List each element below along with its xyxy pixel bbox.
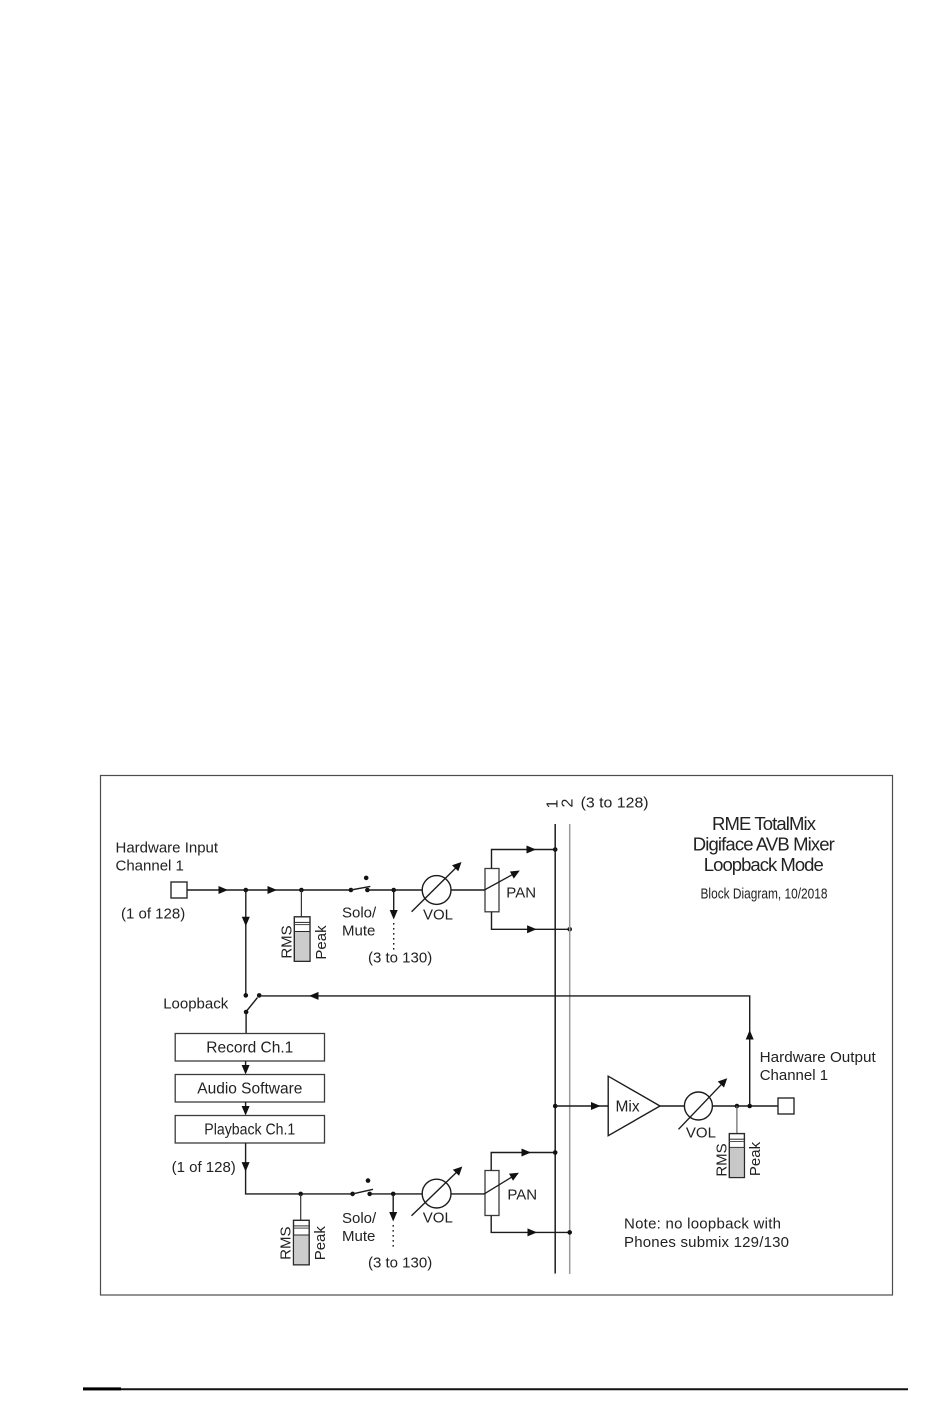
wire PAN1 top to bus1	[492, 850, 556, 869]
arrow loopback feedback up	[746, 1030, 754, 1040]
label PAN 2	[507, 1187, 537, 1204]
meter M3 RMS/Peak	[729, 1134, 744, 1178]
wire solo branch 2 down	[392, 1194, 394, 1212]
bus line 2	[569, 824, 571, 1274]
subtitle Block Diagram	[701, 885, 828, 902]
output terminal square	[778, 1098, 794, 1114]
switch S2 solo/mute contacts	[350, 1178, 372, 1196]
label bus 2	[559, 799, 576, 808]
wire audio to playback	[245, 1102, 247, 1107]
arrow bus1 to mix	[591, 1102, 601, 1110]
svg-text:Digiface AVB Mixer: Digiface AVB Mixer	[693, 834, 835, 855]
amp Mix	[608, 1076, 660, 1136]
pan pot P2 wiper arrow	[484, 1173, 519, 1194]
svg-text:Record Ch.1: Record Ch.1	[206, 1040, 293, 1057]
svg-text:Channel 1: Channel 1	[760, 1067, 828, 1084]
label PAN 1	[506, 885, 536, 902]
arrow PAN1 top	[527, 846, 537, 854]
switch S1 solo/mute contacts	[349, 876, 370, 893]
arrow solo branch 2	[389, 1212, 397, 1222]
wire loopback feedback top	[259, 996, 750, 1106]
svg-text:Mute: Mute	[342, 922, 375, 939]
switch loopback contacts	[244, 993, 262, 1014]
footer rule	[83, 1388, 908, 1390]
arrow loopback feedback left	[309, 992, 319, 1000]
label (3 to 130) 1	[368, 950, 432, 967]
wire solo branch 1 down	[393, 890, 395, 910]
arrow input 1	[219, 886, 229, 894]
node input branch junction	[244, 888, 249, 893]
svg-text:(3 to 130): (3 to 130)	[368, 1255, 432, 1272]
node bus2 pan2	[567, 1230, 572, 1235]
label Solo/Mute 2	[342, 1210, 377, 1245]
svg-text:Hardware Input: Hardware Input	[116, 840, 219, 857]
label Peak meter2	[312, 1226, 329, 1261]
pan pot P1	[485, 869, 499, 912]
arrow PAN1 bottom	[527, 925, 537, 933]
svg-text:Mix: Mix	[616, 1099, 640, 1116]
meter1 stub wire	[300, 890, 302, 917]
input terminal square	[171, 882, 187, 898]
svg-text:RMS: RMS	[278, 1227, 295, 1260]
svg-text:RMS: RMS	[279, 925, 296, 958]
label RMS meter2	[278, 1227, 295, 1260]
svg-text:Peak: Peak	[312, 1226, 329, 1261]
node bus1 pan2	[553, 1150, 558, 1155]
svg-text:Peak: Peak	[313, 925, 330, 960]
meter3 stub wire	[736, 1106, 738, 1134]
label VOL 3	[686, 1124, 716, 1141]
arrow solo branch 1	[390, 910, 398, 920]
box Audio Software	[175, 1075, 324, 1103]
meter M1 RMS/Peak	[294, 917, 310, 962]
wire PAN1 bottom to bus2	[492, 912, 570, 930]
svg-text:Peak: Peak	[747, 1141, 764, 1176]
svg-text:Note: no loopback with: Note: no loopback with	[624, 1216, 781, 1233]
svg-text:Audio Software: Audio Software	[197, 1081, 302, 1098]
svg-text:PAN: PAN	[507, 1187, 537, 1204]
svg-text:Phones submix 129/130: Phones submix 129/130	[624, 1234, 789, 1251]
label (1 of 128) playback	[172, 1159, 236, 1176]
label Solo/Mute 1	[342, 905, 377, 940]
label Hardware Input Channel 1	[116, 840, 219, 875]
svg-text:Loopback: Loopback	[163, 996, 229, 1013]
label RMS meter3	[714, 1143, 731, 1176]
wire bus1 to mix	[555, 1105, 608, 1107]
node meter1 tap	[299, 888, 304, 893]
wire solo branch 2 dotted	[392, 1225, 394, 1248]
wire VOL3 to output	[712, 1105, 778, 1107]
bus line 1	[554, 824, 556, 1274]
wire switch1 to VOL1	[367, 889, 423, 891]
svg-text:2: 2	[559, 799, 576, 808]
svg-text:RME TotalMix: RME TotalMix	[712, 813, 817, 834]
svg-text:(3 to 130): (3 to 130)	[368, 950, 432, 967]
arrow PAN2 bottom	[528, 1228, 538, 1236]
node bus1 mix feed	[553, 1104, 558, 1109]
meter2 stub wire	[300, 1194, 302, 1220]
switch S1 lever	[351, 886, 370, 890]
label VOL 2	[423, 1210, 453, 1227]
svg-text:Loopback Mode: Loopback Mode	[704, 854, 824, 875]
pan pot P1 wiper arrow	[484, 871, 519, 891]
label bus 1	[545, 800, 562, 809]
svg-text:Solo/: Solo/	[342, 1210, 377, 1227]
pot VOL1	[412, 862, 462, 912]
svg-text:(1 of 128): (1 of 128)	[121, 906, 185, 923]
node bus1 pan1	[553, 847, 558, 852]
arrow loopback branch down	[242, 917, 250, 927]
pot VOL2	[412, 1167, 463, 1216]
label RMS meter1	[279, 925, 296, 958]
label Loopback	[163, 996, 229, 1013]
svg-text:RMS: RMS	[714, 1143, 731, 1176]
switch S2 lever	[353, 1189, 373, 1194]
node bus2 pan1	[567, 927, 572, 932]
node feedback tap	[747, 1104, 752, 1109]
svg-text:Playback Ch.1: Playback Ch.1	[204, 1122, 295, 1139]
wire PAN2 top to bus1	[491, 1153, 555, 1171]
node meter3 tap	[735, 1104, 740, 1109]
wire VOL2 to PAN2	[451, 1193, 485, 1195]
wire record to audio	[245, 1061, 247, 1066]
svg-text:(3 to 128): (3 to 128)	[581, 795, 649, 812]
arrow playback down	[242, 1162, 250, 1172]
pot VOL3	[679, 1078, 728, 1129]
svg-text:VOL: VOL	[423, 1210, 453, 1227]
label Peak meter3	[747, 1141, 764, 1176]
pan pot P2	[485, 1171, 499, 1216]
arrow audio to playback	[242, 1106, 250, 1116]
label Hardware Output Channel 1	[760, 1049, 877, 1084]
wire switch2 to VOL2	[370, 1193, 422, 1195]
node solo branch 2	[391, 1192, 396, 1197]
switch loopback lever	[247, 998, 258, 1012]
svg-text:Solo/: Solo/	[342, 905, 377, 922]
wire PAN2 bottom to bus2	[491, 1216, 570, 1233]
title RME TotalMix	[693, 813, 835, 875]
wire loopback switch to record box	[245, 1012, 247, 1034]
label Peak meter1	[313, 925, 330, 960]
wire VOL1 to PAN1	[451, 889, 485, 891]
arrow record to audio	[242, 1065, 250, 1075]
wire input main row	[187, 889, 351, 891]
label note no loopback	[624, 1216, 789, 1251]
meter M2 RMS/Peak	[294, 1220, 310, 1265]
wire mix to VOL3	[660, 1105, 684, 1107]
label VOL 1	[423, 907, 453, 924]
box Playback Ch.1	[175, 1116, 324, 1144]
arrow PAN2 top	[522, 1149, 532, 1157]
node meter2 tap	[298, 1192, 303, 1197]
diagram frame	[101, 776, 893, 1296]
wire loopback branch down	[245, 890, 247, 995]
svg-text:Channel 1: Channel 1	[116, 857, 184, 874]
node solo branch 1	[391, 888, 396, 893]
svg-text:PAN: PAN	[506, 885, 536, 902]
svg-text:Hardware Output: Hardware Output	[760, 1049, 877, 1066]
label (3 to 130) 2	[368, 1255, 432, 1272]
svg-text:(1 of 128): (1 of 128)	[172, 1159, 236, 1176]
svg-text:VOL: VOL	[423, 907, 453, 924]
wire playback down and right	[246, 1143, 353, 1194]
label (1 of 128) input	[121, 906, 185, 923]
label (3 to 128)	[581, 795, 649, 812]
wire solo branch 1 dotted	[393, 923, 395, 950]
arrow input 2	[268, 886, 278, 894]
svg-text:Block Diagram, 10/2018: Block Diagram, 10/2018	[701, 885, 828, 902]
svg-text:VOL: VOL	[686, 1124, 716, 1141]
svg-text:Mute: Mute	[342, 1228, 375, 1245]
box Record Ch.1	[175, 1034, 324, 1062]
